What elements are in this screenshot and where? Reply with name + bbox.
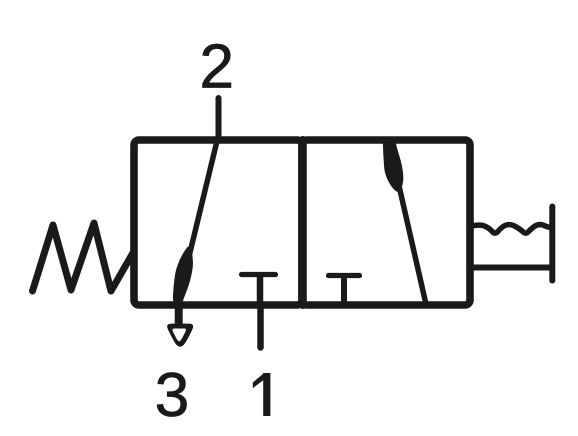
label port 1 (helvetica-style, no foot serif) <box>253 373 271 416</box>
manual actuator: bottom line <box>472 265 552 271</box>
svg-text:2: 2 <box>200 33 234 102</box>
svg-text:3: 3 <box>155 361 189 430</box>
valve body: position box left <box>134 140 302 305</box>
blocked port 1 symbol (left box T) <box>242 272 276 277</box>
manual actuator: end plate <box>549 207 555 281</box>
arrowhead on right diagonal <box>384 139 403 192</box>
flow path arrow (right box diagonal) <box>400 188 426 302</box>
port 2 stub <box>216 98 222 140</box>
port 1 line <box>257 305 264 348</box>
blocked port symbol (right box T) <box>329 273 360 278</box>
valve body: position box right <box>302 140 470 305</box>
divider between positions <box>299 140 307 305</box>
manual actuator: top wavy line <box>472 225 552 233</box>
port 3 stub <box>175 304 183 324</box>
exhaust triangle port 3 <box>167 324 193 347</box>
arrowhead on left diagonal <box>174 248 193 304</box>
flow path arrow 2->3 (left box diagonal) <box>178 141 218 304</box>
return spring <box>33 223 134 291</box>
